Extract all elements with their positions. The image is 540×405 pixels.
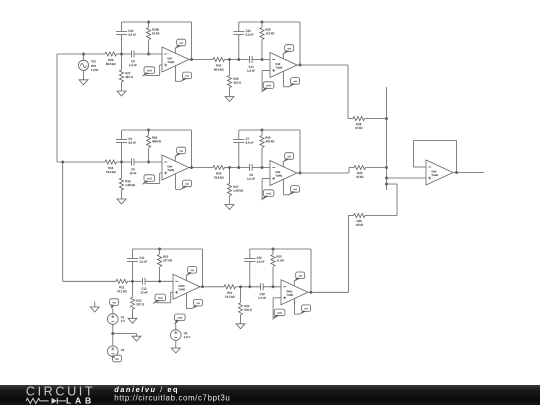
- svg-text:http://circuitlab.com/c7bpt3u: http://circuitlab.com/c7bpt3u: [114, 393, 230, 402]
- svg-text:LAB: LAB: [66, 395, 95, 405]
